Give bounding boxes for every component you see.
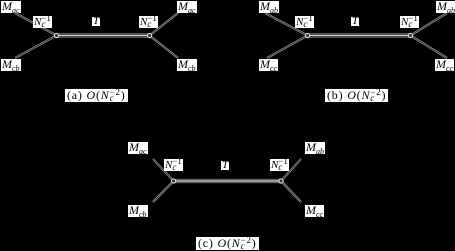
label T diagram-a propagator xyxy=(92,17,100,26)
diagram c leg flank tr xyxy=(281,159,301,181)
label N_c^-1 diagram-a right vertex xyxy=(139,16,158,28)
label T diagram-b propagator xyxy=(351,17,359,26)
diagram c white band for double line xyxy=(174,179,282,183)
label N_c^-1 diagram-c right vertex xyxy=(270,159,289,171)
diagram c leg flank bl xyxy=(153,181,174,202)
label M_ac diagram-c top-left xyxy=(128,142,148,154)
diagram b vertex v2 xyxy=(408,33,413,38)
diagram b leg flank tl xyxy=(265,13,308,36)
diagram a white band for double line xyxy=(57,33,150,37)
diagram b leg ink br xyxy=(411,36,448,59)
diagram b leg flank tr xyxy=(411,13,448,36)
label T diagram-c propagator xyxy=(221,161,229,170)
diagram a leg ink tr xyxy=(150,13,179,36)
diagram a vertex v2 xyxy=(147,33,152,38)
label M_cb diagram-a bottom-left xyxy=(1,59,21,71)
caption (c) O(N_c^-2) xyxy=(196,237,259,250)
diagram c leg flank tl xyxy=(153,159,174,181)
label N_c^-1 diagram-a left vertex xyxy=(33,16,52,28)
diagram a vertex v1 xyxy=(54,33,59,38)
diagram c leg ink bl xyxy=(153,181,174,202)
diagram c vertex v2 xyxy=(278,178,283,183)
diagram c vertex v1 xyxy=(171,178,176,183)
label M_cb diagram-c bottom-left xyxy=(128,205,148,217)
caption (b) O(N_c^-2) xyxy=(325,89,388,102)
diagram a leg ink tl xyxy=(15,13,57,36)
diagram a leg ink br xyxy=(150,36,179,59)
label M_cc diagram-b bottom-right xyxy=(435,59,454,71)
label M_ac diagram-a top-left xyxy=(1,1,21,13)
label M_cb diagram-a bottom-right xyxy=(177,59,197,71)
diagram c leg ink br xyxy=(281,181,301,202)
label M_ab diagram-b top-right xyxy=(436,1,455,13)
diagram a leg flank br xyxy=(150,36,179,59)
diagram b leg flank br xyxy=(411,36,448,59)
diagram b leg flank bl xyxy=(267,36,308,59)
label N_c^-1 diagram-b right vertex xyxy=(400,16,419,28)
label M_ab diagram-b top-left xyxy=(259,1,279,13)
label M_ac diagram-a top-right xyxy=(177,1,197,13)
diagram c leg ink tl xyxy=(153,159,174,181)
diagram b leg ink tl xyxy=(265,13,308,36)
label M_cc diagram-b bottom-left xyxy=(259,59,278,71)
diagram b leg ink tr xyxy=(411,13,448,36)
diagram b double line rails xyxy=(308,33,411,35)
diagram c leg ink tr xyxy=(281,159,301,181)
label N_c^-1 diagram-c left vertex xyxy=(164,159,183,171)
diagram b leg ink bl xyxy=(267,36,308,59)
caption (a) O(N_c^-2) xyxy=(65,89,128,102)
diagram b vertex v1 xyxy=(305,33,310,38)
diagram a double line rails xyxy=(57,33,150,35)
diagram c leg flank br xyxy=(281,181,301,202)
diagram a leg flank tr xyxy=(150,13,179,36)
label N_c^-1 diagram-b left vertex xyxy=(295,16,314,28)
diagram c double line rails xyxy=(174,179,282,181)
label M_cc diagram-c bottom-right xyxy=(305,205,324,217)
diagram a leg flank bl xyxy=(15,36,57,59)
label M_ab diagram-c top-right xyxy=(305,142,325,154)
diagram a leg flank tl xyxy=(15,13,57,36)
diagram b white band for double line xyxy=(308,33,411,37)
diagram a leg ink bl xyxy=(15,36,57,59)
